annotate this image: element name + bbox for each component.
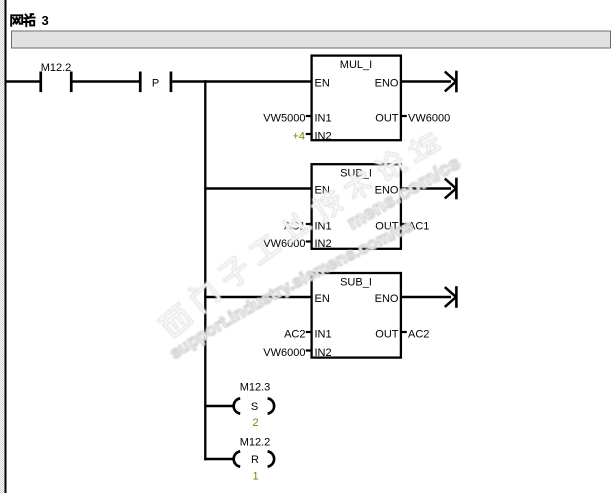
svg-text:OUT: OUT — [375, 329, 399, 341]
svg-text:SUB_I: SUB_I — [340, 277, 372, 289]
scrollbar dither strip — [0, 0, 5, 493]
svg-text:IN1: IN1 — [315, 113, 332, 125]
pin tick IN1 — [306, 223, 311, 225]
wire rung3 — [204, 296, 312, 298]
svg-text:3: 3 — [42, 13, 49, 28]
wire rung1 seg C — [172, 80, 311, 82]
left power rail — [5, 0, 7, 493]
pin tick OUT — [402, 115, 407, 117]
pin tick IN1 — [306, 331, 311, 333]
svg-text:VW5000: VW5000 — [263, 113, 305, 125]
wire to S coil — [204, 405, 232, 407]
arrow open branch 1 — [402, 71, 456, 93]
pin tick OUT — [402, 331, 407, 333]
svg-text:P: P — [152, 78, 159, 90]
svg-text:AC2: AC2 — [408, 329, 429, 341]
pin tick IN2 — [306, 240, 311, 242]
svg-text:EN: EN — [315, 78, 330, 90]
svg-text:IN2: IN2 — [315, 238, 332, 250]
svg-text:IN1: IN1 — [315, 329, 332, 341]
block U3 SUB_I — [263, 273, 429, 359]
coil R M12.2 — [234, 437, 275, 483]
network comment bar — [12, 31, 611, 48]
svg-text:SUB_I: SUB_I — [340, 168, 372, 180]
pin tick IN1 — [306, 115, 311, 117]
wire rung2 — [204, 187, 312, 189]
svg-text:ENO: ENO — [375, 78, 399, 90]
svg-text:IN2: IN2 — [315, 131, 332, 143]
svg-text:M12.3: M12.3 — [240, 382, 271, 394]
svg-text:AC2: AC2 — [284, 329, 305, 341]
block U1 MUL_I — [263, 56, 450, 143]
contact P positive edge — [139, 72, 172, 93]
wire to R coil — [204, 458, 232, 460]
watermark latin A support.industry.siemens.com/cs — [166, 216, 416, 363]
svg-text:EN: EN — [315, 293, 330, 305]
wire rung1 seg A — [5, 80, 40, 82]
pin tick IN2 — [306, 133, 311, 135]
svg-text:VW6000: VW6000 — [408, 113, 450, 125]
svg-text:VW6000: VW6000 — [263, 347, 305, 359]
network title 网络 3 — [11, 14, 34, 26]
pin tick OUT — [402, 223, 407, 225]
coil S M12.3 — [234, 382, 275, 430]
arrow open branch 2 — [402, 178, 456, 200]
svg-text:2: 2 — [252, 417, 258, 429]
pin tick IN2 — [306, 349, 311, 351]
svg-text:MUL_I: MUL_I — [340, 59, 372, 71]
watermark latin B fragment mens.com/cs — [344, 152, 465, 234]
block U2 SUB_I — [263, 164, 429, 250]
svg-text:S: S — [251, 401, 258, 413]
contact M12.2 — [39, 62, 72, 92]
svg-text:VW6000: VW6000 — [263, 238, 305, 250]
svg-text:1: 1 — [252, 471, 258, 483]
svg-text:R: R — [251, 454, 259, 466]
branch vertical wire — [204, 80, 206, 460]
svg-text:ENO: ENO — [375, 293, 399, 305]
svg-text:M12.2: M12.2 — [41, 62, 72, 74]
arrow open branch 3 — [402, 286, 456, 308]
svg-text:IN2: IN2 — [315, 347, 332, 359]
svg-text:OUT: OUT — [375, 113, 399, 125]
svg-text:+4: +4 — [292, 131, 305, 143]
svg-text:M12.2: M12.2 — [240, 437, 271, 449]
wire rung1 seg B — [73, 80, 140, 82]
